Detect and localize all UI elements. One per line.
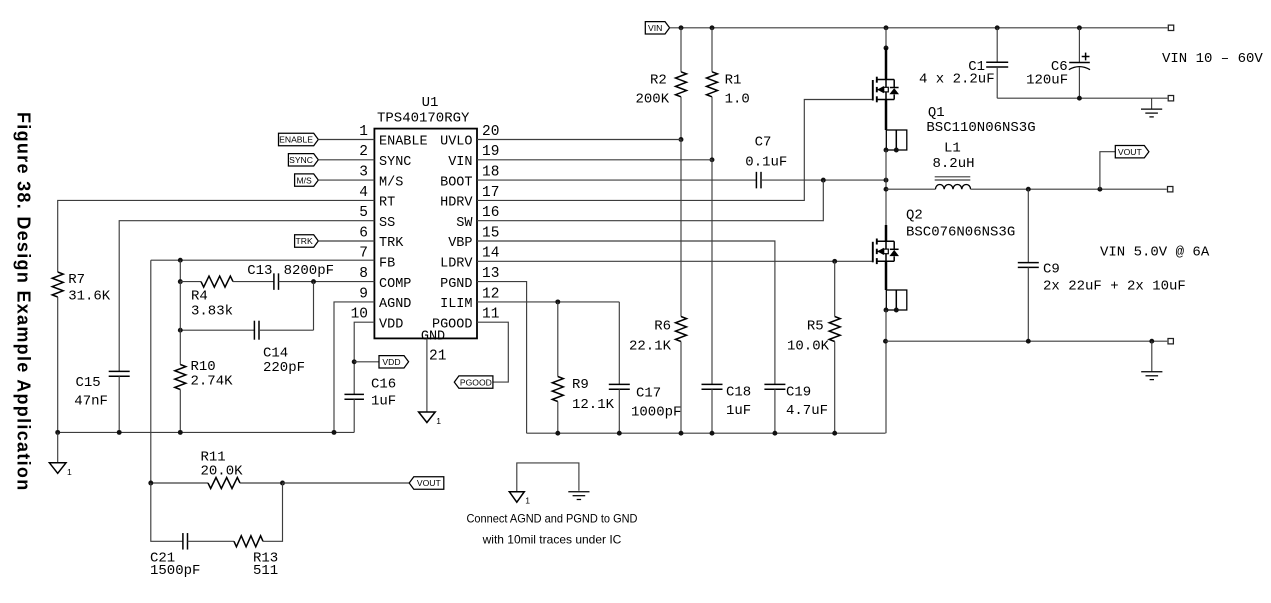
wire Q1 source to net tie xyxy=(885,100,888,131)
net tie NT1 xyxy=(886,130,907,150)
wire Q2 source to net tie xyxy=(885,261,888,290)
svg-text:VIN 10 – 60V: VIN 10 – 60V xyxy=(1162,51,1263,67)
svg-text:PGND: PGND xyxy=(440,277,472,292)
ground bridge PGND rake xyxy=(568,491,589,493)
transistor Q2 xyxy=(872,242,874,262)
svg-text:22.1K: 22.1K xyxy=(629,339,672,355)
wire C15 to AGND rail xyxy=(118,376,120,432)
svg-text:UVLO: UVLO xyxy=(440,135,472,150)
svg-text:SYNC: SYNC xyxy=(289,155,313,165)
svg-text:200K: 200K xyxy=(635,91,669,107)
svg-text:VBP: VBP xyxy=(448,236,472,251)
capacitor C9 xyxy=(1027,189,1029,262)
node VOUT tag left xyxy=(409,477,444,489)
capacitor C1 xyxy=(996,28,998,62)
wire R7 node to ground xyxy=(57,432,59,462)
terminal VOUT- xyxy=(1168,339,1173,344)
wire SW column xyxy=(885,150,887,225)
wire VOUT tag riser xyxy=(1100,152,1115,190)
wire VBP pin15 to C19 xyxy=(477,241,775,384)
svg-text:Q2: Q2 xyxy=(906,208,923,224)
terminal VIN+ xyxy=(1168,25,1173,30)
svg-text:COMP: COMP xyxy=(379,277,411,292)
wire output ground rail xyxy=(886,340,1168,342)
svg-text:4: 4 xyxy=(359,185,368,201)
wire R6 to PGND rail xyxy=(680,342,682,434)
capacitor C13 xyxy=(233,281,274,283)
svg-text:VOUT: VOUT xyxy=(417,478,442,488)
svg-text:R7: R7 xyxy=(68,272,85,288)
wire SYNC to pin2 xyxy=(318,159,374,161)
node VDD tag xyxy=(354,361,379,363)
wire ENABLE to pin1 xyxy=(318,139,374,141)
svg-text:1500pF: 1500pF xyxy=(150,563,200,579)
svg-text:10: 10 xyxy=(351,307,368,323)
transistor Q1 xyxy=(872,80,874,101)
svg-text:M/S: M/S xyxy=(379,175,403,190)
ground output rake xyxy=(1151,341,1153,371)
svg-text:1uF: 1uF xyxy=(371,394,396,410)
svg-text:4 x 2.2uF: 4 x 2.2uF xyxy=(919,72,995,88)
resistor R4 xyxy=(178,279,183,284)
svg-text:2.74K: 2.74K xyxy=(191,374,234,390)
svg-text:VOUT: VOUT xyxy=(1118,147,1143,157)
ground pin21 xyxy=(419,412,436,423)
wire R1 to VIN pin19 xyxy=(711,97,713,160)
svg-text:31.6K: 31.6K xyxy=(68,289,111,305)
net tie NT2 xyxy=(886,290,907,310)
svg-text:VDD: VDD xyxy=(382,357,400,367)
capacitor C21 xyxy=(151,483,183,541)
svg-text:2x 22uF + 2x 10uF: 2x 22uF + 2x 10uF xyxy=(1043,279,1186,295)
wire M/S to pin3 xyxy=(318,179,374,181)
svg-text:12.1K: 12.1K xyxy=(572,397,615,413)
svg-text:1: 1 xyxy=(436,416,441,426)
svg-text:PGOOD: PGOOD xyxy=(460,377,492,387)
svg-text:LDRV: LDRV xyxy=(440,257,473,272)
svg-text:16: 16 xyxy=(482,205,499,221)
svg-text:ENABLE: ENABLE xyxy=(279,135,313,145)
node TRK tag xyxy=(295,235,319,247)
wire R13 up to R11 right node xyxy=(263,483,283,541)
svg-text:7: 7 xyxy=(359,246,368,262)
svg-text:Figure 38. Design Example App: Figure 38. Design Example Application xyxy=(14,112,34,492)
svg-text:R2: R2 xyxy=(650,73,667,89)
svg-text:10.0K: 10.0K xyxy=(787,339,830,355)
svg-text:C15: C15 xyxy=(76,375,101,391)
svg-text:6: 6 xyxy=(359,225,368,241)
wire C16 to AGND rail xyxy=(353,399,355,432)
svg-text:C7: C7 xyxy=(755,135,772,151)
svg-text:VIN: VIN xyxy=(648,23,662,33)
wire BOOT pin18 to C7 xyxy=(477,179,756,181)
wire AGND rail xyxy=(58,431,355,433)
svg-text:with 10mil traces under IC: with 10mil traces under IC xyxy=(482,533,622,547)
resistor R11 xyxy=(151,482,208,484)
wire FB down to R11 node xyxy=(150,260,152,483)
svg-text:18: 18 xyxy=(482,165,499,181)
svg-text:3.83k: 3.83k xyxy=(191,304,233,320)
wire C7 to SW node xyxy=(761,179,886,181)
svg-text:R1: R1 xyxy=(725,73,742,89)
svg-text:1: 1 xyxy=(525,496,530,506)
resistor R5 xyxy=(834,261,836,316)
wire C13 to COMP xyxy=(279,281,375,283)
svg-text:20: 20 xyxy=(482,124,499,140)
resistor R2 xyxy=(680,28,682,72)
wire R4 node down to R10 xyxy=(178,328,183,333)
svg-text:L1: L1 xyxy=(944,140,961,156)
wire R7 to AGND rail xyxy=(57,297,59,432)
wire PGND rail xyxy=(527,432,886,434)
wire COMP riser to C14 xyxy=(313,282,315,331)
svg-text:TPS40170RGY: TPS40170RGY xyxy=(377,111,470,127)
svg-text:15: 15 xyxy=(482,225,499,241)
svg-text:HDRV: HDRV xyxy=(440,196,473,211)
capacitor C6 xyxy=(1078,28,1080,63)
wire VOUT rail xyxy=(971,188,1167,190)
resistor R1 xyxy=(711,28,713,72)
wire Q2 drain xyxy=(885,225,888,241)
resistor R13 xyxy=(188,540,235,542)
svg-text:C19: C19 xyxy=(786,385,811,401)
wire HDRV pin17 to Q1 gate xyxy=(477,100,873,201)
svg-text:8: 8 xyxy=(359,266,368,282)
wire FB to R4 node xyxy=(179,260,181,281)
wire R11 to VOUT tag xyxy=(240,482,283,484)
wire VDD pin10 down xyxy=(354,322,374,394)
wire AGND pin9 to rail xyxy=(334,302,374,433)
svg-text:BSC110N06NS3G: BSC110N06NS3G xyxy=(926,120,1035,136)
svg-text:SS: SS xyxy=(379,216,395,231)
svg-text:M/S: M/S xyxy=(297,175,313,185)
wire R9 to PGND rail xyxy=(557,402,559,434)
svg-text:SW: SW xyxy=(456,216,473,231)
svg-text:19: 19 xyxy=(482,144,499,160)
capacitor C14 xyxy=(180,329,254,331)
svg-text:511: 511 xyxy=(253,563,278,579)
inductor L1 xyxy=(886,188,935,190)
svg-text:VIN 5.0V @ 6A: VIN 5.0V @ 6A xyxy=(1100,245,1210,261)
svg-text:C18: C18 xyxy=(726,385,751,401)
svg-text:120uF: 120uF xyxy=(1026,73,1068,89)
node VOUT tag right xyxy=(1115,146,1149,158)
svg-text:VIN: VIN xyxy=(448,155,472,170)
svg-text:TRK: TRK xyxy=(379,236,404,251)
op-amp U1 TPS40170RGY box xyxy=(374,129,477,339)
svg-text:1: 1 xyxy=(67,467,72,477)
resistor R10 xyxy=(175,365,186,390)
capacitor C15 xyxy=(109,370,130,372)
svg-text:U1: U1 xyxy=(422,95,439,111)
wire C9 to output ground rail xyxy=(1027,267,1029,341)
wire R10 to AGND rail xyxy=(179,390,181,433)
svg-text:1uF: 1uF xyxy=(726,403,751,419)
svg-text:BOOT: BOOT xyxy=(440,175,472,190)
resistor R9 xyxy=(557,302,559,377)
svg-text:ENABLE: ENABLE xyxy=(379,135,428,150)
svg-text:C17: C17 xyxy=(636,386,661,402)
svg-text:Connect AGND and PGND to GND: Connect AGND and PGND to GND xyxy=(467,512,638,526)
svg-text:GND: GND xyxy=(421,330,445,345)
svg-text:FB: FB xyxy=(379,257,395,272)
wire R2 to UVLO pin20 xyxy=(680,97,682,140)
wire TRK to pin6 xyxy=(318,240,374,242)
terminal VIN- xyxy=(1168,96,1173,101)
svg-text:2: 2 xyxy=(359,144,368,160)
svg-text:C16: C16 xyxy=(371,377,396,393)
wire PGND pin13 down xyxy=(477,282,527,434)
svg-text:21: 21 xyxy=(429,348,446,364)
svg-text:13: 13 xyxy=(482,266,499,282)
svg-text:1: 1 xyxy=(359,124,368,140)
wire VIN rail xyxy=(670,27,1168,29)
resistor R7 xyxy=(52,272,63,297)
svg-text:0.1uF: 0.1uF xyxy=(745,155,787,171)
node VIN tag xyxy=(645,22,669,34)
wire SW pin16 riser xyxy=(477,180,823,221)
svg-text:1000pF: 1000pF xyxy=(631,405,681,421)
svg-text:R5: R5 xyxy=(807,319,824,335)
ground input rake xyxy=(1151,98,1153,108)
svg-text:12: 12 xyxy=(482,286,499,302)
svg-text:VDD: VDD xyxy=(379,317,403,332)
node SYNC tag xyxy=(288,154,318,166)
svg-text:TRK: TRK xyxy=(296,236,313,246)
svg-text:R9: R9 xyxy=(572,377,589,393)
svg-text:47nF: 47nF xyxy=(74,394,108,410)
wire ILIM pin12 to R9 C17 xyxy=(477,301,619,303)
wire input cap ground xyxy=(997,97,1167,99)
svg-text:RT: RT xyxy=(379,196,395,211)
wire RT pin4 to R7 xyxy=(58,200,375,272)
wire Q1 drain from VIN rail xyxy=(885,28,887,48)
capacitor C16 xyxy=(344,393,364,395)
svg-text:8200pF: 8200pF xyxy=(284,263,334,279)
svg-text:AGND: AGND xyxy=(379,297,411,312)
svg-text:Q1: Q1 xyxy=(928,105,945,121)
ground AGND xyxy=(49,463,66,474)
svg-text:14: 14 xyxy=(482,246,499,262)
wire R5 to PGND rail xyxy=(834,342,836,434)
resistor R6 xyxy=(680,140,682,317)
wire LDRV pin14 to Q2 gate xyxy=(477,260,873,262)
ground bridge AGND xyxy=(509,492,524,503)
capacitor C18 xyxy=(711,160,713,385)
svg-text:9: 9 xyxy=(359,286,368,302)
node M/S tag xyxy=(295,174,319,186)
wire SS pin5 to C15 xyxy=(119,221,374,372)
terminal VOUT+ xyxy=(1168,187,1173,192)
svg-text:ILIM: ILIM xyxy=(440,297,472,312)
svg-text:3: 3 xyxy=(359,165,368,181)
svg-text:4.7uF: 4.7uF xyxy=(786,403,828,419)
svg-text:R4: R4 xyxy=(191,289,208,305)
svg-text:20.0K: 20.0K xyxy=(201,464,244,480)
capacitor C19 xyxy=(764,383,785,385)
svg-text:C13: C13 xyxy=(247,263,272,279)
svg-text:11: 11 xyxy=(482,307,499,323)
wire Q2 source column to PGND rail xyxy=(885,310,887,433)
wire FB pin7 xyxy=(151,259,375,261)
node ENABLE tag xyxy=(279,133,319,145)
wire PGOOD pin11 to tag xyxy=(477,322,508,382)
svg-text:BSC076N06NS3G: BSC076N06NS3G xyxy=(906,225,1015,241)
wire ground bridge xyxy=(517,463,579,492)
capacitor C17 xyxy=(618,302,620,385)
svg-text:17: 17 xyxy=(482,185,499,201)
node PGOOD tag xyxy=(454,376,493,388)
svg-text:220pF: 220pF xyxy=(263,360,305,376)
svg-text:8.2uH: 8.2uH xyxy=(933,156,975,172)
capacitor C7 xyxy=(755,172,757,189)
svg-text:R6: R6 xyxy=(654,319,671,335)
svg-text:C9: C9 xyxy=(1043,262,1060,278)
svg-text:1.0: 1.0 xyxy=(725,92,750,108)
svg-text:5: 5 xyxy=(359,205,368,221)
svg-text:SYNC: SYNC xyxy=(379,155,411,170)
